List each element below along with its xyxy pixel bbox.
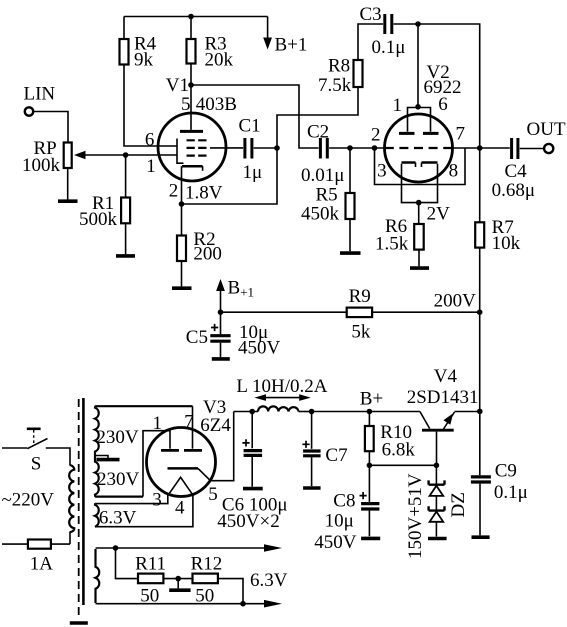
ground RP	[58, 199, 78, 203]
wire pin 7 to OUT node	[453, 147, 480, 149]
tube V3 envelope	[147, 428, 216, 497]
tube V2 grid dashed	[385, 147, 453, 149]
wire mid to ground	[177, 579, 179, 589]
svg-text:6.8k: 6.8k	[382, 440, 416, 461]
tube V3 plates	[161, 449, 202, 452]
node V4 base junction	[434, 463, 440, 469]
svg-text:2: 2	[371, 125, 381, 146]
svg-text:1.8V: 1.8V	[185, 182, 223, 203]
node 200V junction	[477, 309, 483, 315]
wire C2 to V2 grid	[329, 147, 385, 149]
svg-text:230V: 230V	[96, 427, 138, 448]
svg-text:20k: 20k	[205, 49, 234, 70]
svg-text:OUT: OUT	[527, 119, 566, 140]
wire 6.3V winding to V3 pin 4	[95, 495, 193, 527]
wire C1 to node	[254, 147, 277, 149]
capacitor C2	[301, 121, 344, 186]
wire V3 pin 3 to 6.3V winding	[96, 495, 168, 504]
svg-text:230V: 230V	[97, 469, 140, 490]
svg-text:B+1: B+1	[275, 34, 308, 55]
svg-text:R12: R12	[191, 554, 223, 575]
svg-text:B+: B+	[360, 388, 383, 409]
svg-text:9k: 9k	[134, 49, 154, 70]
svg-text:DZ: DZ	[448, 492, 469, 517]
svg-text:R5: R5	[316, 184, 338, 205]
wire R1 to ground	[125, 223, 127, 254]
wire heater top line	[96, 547, 266, 549]
svg-text:10k: 10k	[492, 233, 521, 254]
wire R12 to bottom line	[218, 579, 243, 604]
tube V2 cathodes	[402, 161, 438, 164]
resistor R7	[475, 148, 520, 254]
wire mains stub top	[2, 447, 27, 449]
node grid box junction	[372, 145, 378, 151]
node C1/R8 junction	[274, 145, 280, 151]
svg-text:V4: V4	[434, 366, 458, 387]
wire V1 cathode to node	[181, 166, 183, 204]
tube V3 filament	[168, 477, 193, 495]
wire C3 to plate node	[394, 23, 418, 25]
wire output column to C9	[479, 411, 481, 475]
svg-text:450V: 450V	[314, 532, 357, 553]
resistor R3	[187, 17, 234, 71]
terminal LIN	[24, 83, 56, 115]
wire L to B+ node	[299, 411, 312, 413]
svg-text:0.68μ: 0.68μ	[492, 180, 535, 201]
zener DZ	[429, 465, 445, 536]
potentiometer RP	[22, 138, 126, 176]
svg-text:100k: 100k	[22, 155, 61, 176]
svg-text:150V+51V: 150V+51V	[405, 473, 426, 559]
tube V2 cathode box	[402, 164, 438, 203]
resistor R2	[177, 204, 222, 265]
power B+1 middle arrow	[216, 278, 254, 313]
wire heater bottom line	[96, 603, 266, 605]
svg-text:0.01μ: 0.01μ	[301, 165, 344, 186]
node V2 plate bracket	[415, 104, 421, 110]
wire B+1 bus to R9	[221, 311, 347, 313]
svg-text:4: 4	[175, 497, 185, 518]
wire heater node to R11	[116, 548, 139, 579]
capacitor C9	[471, 460, 528, 535]
svg-text:1A: 1A	[30, 554, 54, 575]
tube V2 plate bracket	[408, 108, 431, 132]
wire V2 grid box	[375, 148, 466, 185]
svg-text:~220V: ~220V	[2, 489, 55, 510]
wire top supply bus	[124, 16, 268, 18]
svg-text:403B: 403B	[196, 94, 237, 115]
wire B+ bus	[312, 411, 420, 413]
svg-text:10μ: 10μ	[325, 510, 354, 531]
tube V3 cathode	[168, 467, 199, 470]
svg-text:2V: 2V	[427, 204, 451, 225]
svg-text:0.1μ: 0.1μ	[372, 37, 406, 58]
svg-text:1: 1	[393, 95, 403, 116]
terminal OUT	[527, 119, 566, 153]
svg-text:7: 7	[184, 412, 194, 433]
ground C8	[361, 537, 380, 541]
svg-text:C8: C8	[333, 491, 355, 512]
node C7 junction	[309, 409, 315, 415]
svg-text:7.5k: 7.5k	[318, 75, 352, 96]
node C6 junction	[249, 409, 255, 415]
node R5 junction	[347, 145, 353, 151]
svg-text:6.3V: 6.3V	[99, 507, 137, 528]
arrow heater bottom	[264, 600, 282, 608]
svg-text:1: 1	[146, 156, 156, 177]
ground R2	[172, 286, 192, 290]
resistor R9	[347, 286, 372, 343]
svg-text:C1: C1	[239, 116, 261, 137]
tube V1 grid dashes	[187, 140, 208, 155]
transformer primary winding	[69, 465, 74, 532]
svg-text:8: 8	[449, 160, 459, 181]
wire cathode node to C1 node	[182, 148, 278, 204]
svg-text:6: 6	[145, 130, 155, 151]
wire R6 to ground	[418, 250, 420, 267]
svg-text:C9: C9	[495, 460, 517, 481]
wire V1 g2 to C1	[210, 147, 243, 149]
transformer heater winding	[96, 549, 100, 603]
resistor R11	[135, 554, 166, 607]
svg-text:L 10H/0.2A: L 10H/0.2A	[236, 376, 327, 397]
resistor R12	[191, 554, 223, 607]
capacitor C4	[480, 138, 544, 201]
ground C7	[303, 486, 321, 490]
ground C9	[472, 535, 490, 539]
wire node to R8	[277, 87, 358, 148]
L span arrow	[254, 394, 310, 401]
capacitor C1	[239, 116, 263, 183]
svg-text:450k: 450k	[301, 203, 340, 224]
ground C6	[243, 487, 263, 491]
wire grid junction to V1 pin 1	[126, 154, 177, 156]
svg-text:3: 3	[377, 160, 387, 181]
ground R5	[340, 251, 361, 255]
wire RP to ground	[67, 168, 69, 200]
wire R2 to ground	[181, 261, 183, 286]
resistor R4	[120, 17, 157, 71]
svg-text:C2: C2	[307, 121, 329, 142]
svg-text:C3: C3	[360, 4, 382, 25]
wire HV bottom to V3 pin 1	[143, 431, 170, 497]
transformer core	[82, 398, 85, 605]
wire switch to primary	[46, 448, 70, 466]
svg-text:6Z4: 6Z4	[200, 415, 231, 436]
capacitor C3	[360, 4, 406, 58]
ground DZ	[428, 537, 447, 541]
svg-text:C5: C5	[186, 327, 208, 348]
svg-text:3: 3	[152, 490, 162, 511]
node R10 bottom junction	[367, 463, 373, 469]
wire V2 plate stem	[417, 24, 419, 108]
svg-text:1.5k: 1.5k	[375, 234, 409, 255]
svg-text:R8: R8	[328, 56, 350, 77]
node heater mid junction	[175, 576, 181, 582]
tube V2 envelope	[385, 114, 453, 182]
inductor L	[258, 406, 299, 411]
arrow heater top	[264, 544, 282, 552]
node R10 junction	[367, 409, 373, 415]
wire R8 to C3 line	[358, 24, 383, 60]
transistor V4	[420, 412, 480, 466]
svg-text:2SD1431: 2SD1431	[407, 387, 479, 408]
wire R9 to 200V node	[372, 311, 480, 313]
svg-text:500k: 500k	[79, 209, 118, 230]
transformer HV center tap	[95, 456, 108, 459]
ground R1	[116, 254, 135, 258]
node heater top junction	[113, 545, 119, 551]
svg-text:7: 7	[456, 124, 466, 145]
ground core	[70, 621, 88, 625]
capacitor C7	[302, 412, 347, 487]
wire R7 to 200V node	[479, 248, 481, 313]
svg-text:C7: C7	[325, 445, 347, 466]
resistor R8	[318, 56, 363, 96]
ground C5	[212, 357, 230, 361]
svg-text:6: 6	[438, 94, 448, 115]
tube V1 cathode	[182, 165, 203, 168]
transformer core shield (dashed)	[78, 399, 80, 619]
svg-text:6.3V: 6.3V	[250, 570, 288, 591]
wire R11 to R12	[163, 578, 192, 580]
resistor R10	[365, 412, 415, 461]
node heater bottom junction	[240, 601, 246, 607]
node V1 grid junction	[123, 152, 129, 158]
svg-text:5k: 5k	[351, 322, 371, 343]
switch S	[27, 429, 48, 475]
node V1 plate junction	[188, 82, 194, 88]
tube V1 envelope	[158, 113, 226, 181]
wire R3 to plate node	[190, 64, 192, 86]
ground R6	[410, 266, 429, 270]
capacitor C5	[186, 312, 281, 358]
power B+1 top arrow	[263, 17, 307, 56]
svg-text:5: 5	[181, 94, 191, 115]
capacitor C8	[314, 465, 379, 553]
wire R5 to ground	[349, 219, 351, 251]
resistor R6	[375, 203, 424, 255]
wire R10 node to DZ	[369, 464, 436, 466]
wire R10 to base node	[368, 451, 370, 465]
node top bus junction	[188, 14, 194, 20]
fuse 1A	[28, 540, 53, 575]
node OUT junction	[477, 145, 483, 151]
wire B+ line left	[234, 411, 258, 413]
node B+1 junction	[218, 309, 224, 315]
wire V3 cathode to B+ line	[198, 412, 234, 481]
wire R4 to V1 grid pin 6	[124, 65, 177, 147]
wire primary to fuse line	[2, 532, 70, 545]
resistor R1	[79, 155, 130, 230]
ground heater mid	[169, 588, 190, 592]
node C3/V2 plate	[415, 21, 421, 27]
tube V1 plate	[190, 85, 192, 130]
svg-text:5: 5	[208, 484, 218, 505]
wire LIN to RP	[33, 112, 68, 143]
svg-text:0.1μ: 0.1μ	[494, 482, 528, 503]
svg-text:R11: R11	[135, 554, 166, 575]
svg-text:2: 2	[169, 181, 179, 202]
wire C3 node to output column	[418, 24, 480, 148]
svg-text:S: S	[31, 454, 42, 475]
svg-text:450V: 450V	[238, 337, 281, 358]
capacitor C6	[242, 412, 262, 487]
node output column B+ junction	[477, 409, 483, 415]
resistor R5	[301, 148, 355, 224]
wire output column middle	[479, 312, 481, 411]
svg-text:450V×2: 450V×2	[217, 511, 279, 532]
wire plate node to C2	[191, 85, 319, 148]
svg-text:1: 1	[153, 413, 163, 434]
tube V1 grid bracket	[177, 139, 184, 164]
transformer 6.3V winding	[95, 504, 99, 527]
tube V2 plates	[399, 132, 439, 135]
node cathode junction	[179, 201, 185, 207]
svg-text:200: 200	[193, 244, 222, 265]
svg-text:R9: R9	[349, 286, 371, 307]
wire HV top to V3 pin 7	[192, 406, 194, 449]
svg-text:1μ: 1μ	[243, 162, 263, 183]
node V2 cathode junction	[416, 200, 422, 206]
svg-text:LIN: LIN	[24, 83, 56, 104]
transformer HV secondary winding	[95, 406, 193, 496]
svg-text:200V: 200V	[434, 291, 477, 312]
